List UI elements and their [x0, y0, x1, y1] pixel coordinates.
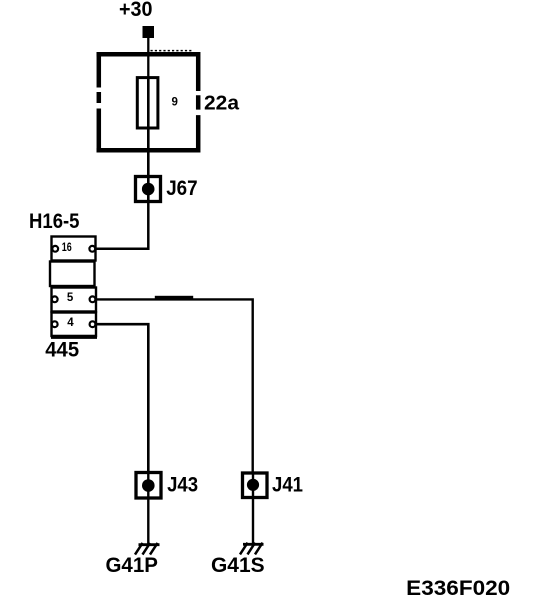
label G41S: [211, 553, 265, 577]
label G41P: [106, 553, 158, 577]
svg-text:E336F020: E336F020: [406, 576, 510, 600]
H16-5 pin 16 (terminals and number): [52, 242, 95, 254]
svg-text:J41: J41: [272, 474, 303, 497]
svg-text:5: 5: [67, 292, 74, 304]
wire J67 to H16-5 pin 16: [96, 201, 148, 249]
svg-text:16: 16: [62, 242, 72, 254]
fuse box label 22a: [204, 92, 240, 115]
svg-text:4: 4: [67, 317, 74, 329]
connector J67 (square with dot): [136, 176, 161, 202]
svg-text:+30: +30: [119, 0, 153, 21]
fuse 9 (rectangle symbol): [137, 77, 158, 129]
fuse value label 9: [172, 97, 178, 109]
label 445: [45, 339, 79, 362]
svg-text:G41S: G41S: [211, 553, 265, 577]
connector H16-5 housing (4 cells): [50, 237, 97, 337]
label H16-5: [29, 210, 80, 233]
power label +30: [119, 0, 153, 21]
ground G41P symbol: [135, 543, 160, 555]
fuse box 22a dashed enclosure: [97, 51, 201, 153]
svg-text:9: 9: [172, 97, 178, 109]
power +30 terminal (black square): [143, 26, 155, 38]
svg-text:J43: J43: [167, 473, 198, 496]
svg-text:H16-5: H16-5: [29, 210, 80, 233]
svg-text:G41P: G41P: [106, 553, 158, 577]
H16-5 pin 4 (terminals and number): [52, 317, 96, 329]
connector J41 (square with dot): [243, 473, 268, 499]
H16-5 pin 5 (terminals and number): [52, 292, 96, 304]
label J41: [272, 474, 303, 497]
wire H16-5 pin 5 to J41: [97, 296, 253, 473]
ground G41S symbol: [240, 543, 264, 555]
label J43: [167, 473, 198, 496]
connector J43 (square with dot): [136, 472, 161, 499]
svg-text:J67: J67: [166, 177, 197, 200]
label J67: [166, 177, 197, 200]
wire H16-5 pin 4 to J43: [97, 324, 148, 472]
drawing number E336F020: [406, 576, 510, 600]
svg-text:445: 445: [45, 339, 79, 362]
wire +30 terminal to fuse box: [147, 38, 149, 78]
wire fuse to connector J67: [147, 128, 150, 176]
wire J43 to ground G41P: [147, 498, 149, 544]
wire J41 to ground G41S: [252, 497, 254, 544]
svg-text:22a: 22a: [204, 92, 240, 115]
